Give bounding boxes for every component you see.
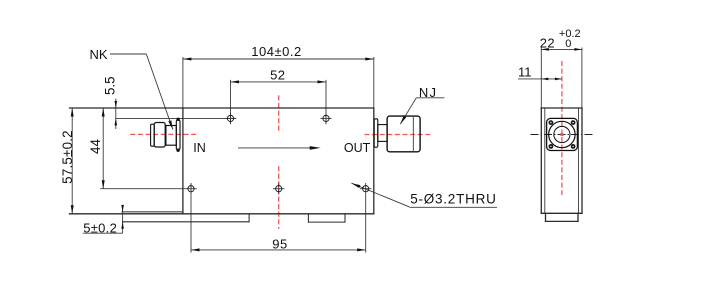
svg-text:104±0.2: 104±0.2 xyxy=(251,44,301,59)
svg-text:5-Ø3.2THRU: 5-Ø3.2THRU xyxy=(410,192,496,207)
svg-text:NK: NK xyxy=(90,47,108,62)
svg-text:57.5±0.2: 57.5±0.2 xyxy=(60,130,75,184)
svg-text:95: 95 xyxy=(272,237,287,252)
svg-text:22: 22 xyxy=(540,36,555,51)
svg-text:OUT: OUT xyxy=(344,141,371,155)
svg-text:IN: IN xyxy=(193,141,206,155)
svg-text:11: 11 xyxy=(518,65,532,80)
svg-text:44: 44 xyxy=(88,139,103,154)
svg-text:0: 0 xyxy=(565,38,571,50)
svg-text:5.5: 5.5 xyxy=(102,76,117,95)
svg-text:52: 52 xyxy=(270,68,285,83)
svg-text:NJ: NJ xyxy=(419,85,437,100)
svg-text:5±0.2: 5±0.2 xyxy=(83,220,117,235)
